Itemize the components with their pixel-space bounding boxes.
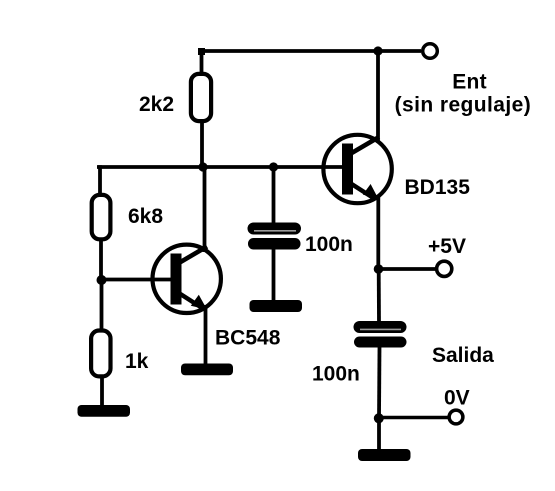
node input junction [373,46,382,55]
ground bottom [358,449,411,461]
capacitor C2 100n [354,321,407,348]
wire BC548 emitter [204,305,208,365]
ground BC548 [181,364,233,376]
wire BD135 collector [376,51,380,142]
ground C1 [250,300,303,312]
wire 2k2 top lead [200,51,204,75]
wire left branch upper [98,165,102,196]
resistor 6k8 [92,195,111,239]
svg-text:(sin regulaje): (sin regulaje) [395,94,532,117]
wire C2 top lead [377,269,381,323]
wire BC548 base [102,278,173,282]
wire 1k bottom lead [100,377,104,408]
node divider junction [97,275,107,285]
svg-text:100n: 100n [312,363,360,386]
wire +5V tap [379,267,437,271]
wire junction to 1k [100,280,104,330]
node 0V junction [374,413,384,423]
wire 2k2 bottom lead [200,121,204,168]
svg-text:2k2: 2k2 [139,93,174,116]
resistor 2k2 [191,74,211,121]
node rail junction B [269,162,278,171]
resistor 1k [91,331,110,377]
wire top rail [199,49,421,53]
wire base rail [97,165,344,169]
transistor Q1 BC548 body [153,245,221,313]
terminal +5V [437,261,452,276]
svg-text:BC548: BC548 [215,327,281,350]
capacitor C1 100n [248,223,302,250]
svg-text:0V: 0V [444,387,470,410]
node rail junction A [198,162,207,171]
wire 0V tap [379,416,448,420]
node +5V junction [374,264,384,274]
transistor Q2 BD135 body [323,135,391,203]
terminal 0V [449,410,463,424]
wire BC548 collector [203,167,207,252]
svg-text:+5V: +5V [428,235,466,258]
svg-text:BD135: BD135 [405,176,471,199]
svg-text:1k: 1k [125,350,149,373]
svg-text:100n: 100n [305,233,353,256]
wire C1 bottom lead [272,249,276,302]
wire C2 bottom lead [377,347,381,419]
svg-text:6k8: 6k8 [128,205,163,228]
svg-text:Salida: Salida [432,344,494,367]
terminal Ent [423,44,438,59]
wire 6k8 to junction [99,239,103,282]
ground left [78,405,131,417]
wire to bottom ground [377,418,381,451]
wire C1 top lead [272,167,276,224]
node top-left corner [198,48,205,55]
wire BD135 emitter [376,196,380,271]
svg-text:Ent: Ent [452,71,487,94]
